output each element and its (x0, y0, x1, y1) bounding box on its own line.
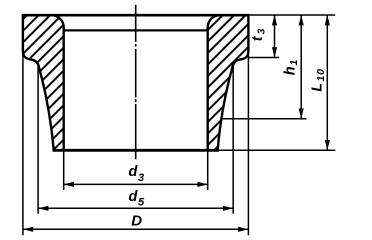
label L10 (310, 68, 328, 91)
extension line d5 left (37, 64, 39, 214)
outer contour right (218, 14, 249, 150)
recess edge line (64, 29, 208, 31)
extension line d3 left (63, 150, 65, 190)
extension line top right (248, 14, 335, 16)
label h1 (283, 59, 301, 75)
extension line bottom right (219, 149, 335, 151)
extension line D right (247, 55, 249, 235)
extension line D left (22, 55, 24, 235)
outer contour left (23, 14, 54, 150)
dimension line d5 (38, 207, 233, 209)
extension line d5 right (232, 64, 234, 214)
extension line d3 right (207, 150, 209, 190)
section hatch right (208, 15, 249, 150)
label t3 (250, 27, 268, 41)
section hatch left (23, 15, 64, 150)
centerline (135, 5, 137, 160)
svg-text:D: D (131, 212, 142, 229)
top face line (22, 14, 250, 17)
dimension line t3 (274, 15, 276, 58)
bore lip right (208, 15, 220, 150)
dimension line L10 (326, 15, 328, 150)
dimension line h1 (300, 15, 302, 119)
dimension line d3 (64, 183, 208, 185)
extension line t3 (248, 57, 279, 59)
bottom face line (52, 149, 219, 152)
dimension line D (23, 228, 249, 230)
extension line h1 (221, 118, 306, 120)
bore lip left (51, 15, 63, 150)
